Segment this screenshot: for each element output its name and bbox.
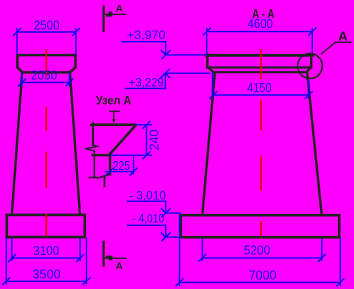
svg-text:7000: 7000 bbox=[249, 268, 277, 282]
right pier centerline bbox=[260, 50, 262, 235]
svg-text:3100: 3100 bbox=[33, 244, 59, 258]
right cap left edge bbox=[206, 54, 208, 67]
dimension 225 bbox=[106, 157, 138, 175]
elevation marker -3.010 bbox=[127, 201, 180, 217]
dimension 3500 bbox=[3, 239, 90, 285]
section cut marker bottom: solid arrow block bbox=[106, 256, 113, 261]
section cut marker top: line bbox=[102, 7, 104, 31]
dimension 4150 bbox=[210, 74, 312, 99]
svg-text:2050: 2050 bbox=[31, 68, 57, 82]
svg-text:225: 225 bbox=[113, 159, 130, 173]
dimension 7000 bbox=[176, 215, 344, 286]
right cap bottom line bbox=[214, 71, 307, 73]
detail break zigzag bbox=[85, 145, 97, 151]
dimension 4600 bbox=[203, 28, 316, 54]
right cap top bbox=[206, 54, 312, 57]
svg-text:А: А bbox=[116, 4, 123, 15]
detail neck line bbox=[93, 154, 110, 156]
dimension 2050 bbox=[19, 74, 73, 86]
right cap right chamfer bbox=[306, 67, 311, 72]
elevation marker +3.970 bbox=[122, 42, 207, 59]
detail axis arrow bar bbox=[110, 110, 119, 112]
right shaft left edge bbox=[202, 73, 214, 214]
detail bottom break tail bbox=[104, 178, 106, 187]
svg-text:Узел А: Узел А bbox=[96, 94, 131, 108]
detail axis arrowhead bbox=[112, 119, 116, 123]
detail bottom break bbox=[98, 174, 110, 178]
svg-text:5200: 5200 bbox=[244, 243, 271, 257]
dimension 240 bbox=[111, 121, 151, 159]
detail circle A bbox=[298, 54, 323, 79]
right pier footing bbox=[181, 215, 339, 237]
svg-text:- 3,010: - 3,010 bbox=[129, 188, 166, 202]
detail chamfer diagonal bbox=[110, 126, 135, 154]
svg-text:+3,970: +3,970 bbox=[127, 28, 166, 42]
right cap left chamfer bbox=[208, 67, 214, 72]
left pier shaft left edge bbox=[12, 73, 22, 214]
svg-text:А: А bbox=[338, 29, 348, 44]
detail cap left cut line bbox=[92, 124, 94, 145]
detail circle leader bbox=[321, 42, 335, 53]
svg-text:3500: 3500 bbox=[32, 267, 60, 281]
left pier shaft right edge bbox=[70, 73, 80, 214]
svg-text:4150: 4150 bbox=[247, 81, 271, 95]
detail bottom bar bbox=[89, 177, 98, 179]
right shaft right edge bbox=[307, 73, 321, 214]
section cut marker bottom: line bbox=[102, 242, 104, 266]
left pier centerline bbox=[45, 50, 47, 236]
svg-text:240: 240 bbox=[148, 130, 162, 151]
svg-text:2500: 2500 bbox=[34, 19, 60, 33]
elevation marker -4.010 bbox=[127, 225, 180, 241]
svg-text:4600: 4600 bbox=[248, 17, 273, 31]
detail shaft left cut line bbox=[93, 151, 95, 178]
elevation marker +3.229 bbox=[126, 69, 210, 88]
section cut marker top: arrow line bbox=[104, 13, 126, 15]
dimension 5200 bbox=[199, 239, 325, 261]
right cap right edge bbox=[310, 54, 312, 67]
svg-text:- 4,010: - 4,010 bbox=[132, 212, 164, 226]
detail circle label underline bbox=[335, 41, 351, 43]
dimension 3100 bbox=[8, 239, 83, 262]
right cap middle line bbox=[207, 66, 311, 68]
section cut marker top: solid arrow block bbox=[106, 12, 113, 17]
detail shaft edge bbox=[109, 155, 111, 174]
detail cap top line bbox=[91, 123, 135, 126]
dimension 2500 bbox=[14, 29, 80, 55]
left pier cap bbox=[17, 55, 75, 72]
svg-text:+3,229: +3,229 bbox=[129, 75, 165, 89]
detail axis arrow stem bbox=[113, 111, 115, 119]
svg-text:А: А bbox=[116, 261, 123, 272]
section cut marker bottom: arrow line bbox=[104, 257, 126, 259]
left pier footing bbox=[7, 215, 85, 237]
